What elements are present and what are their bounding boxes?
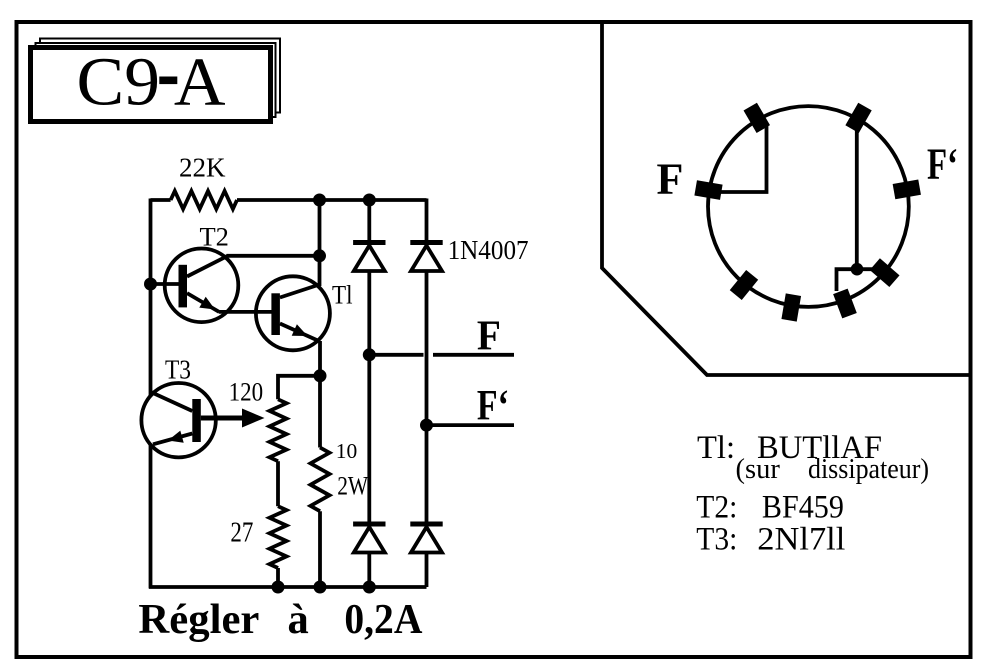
resistor 22K [171,191,237,209]
pad 4 (node F-prime) [893,179,921,199]
transistor T2 [165,248,239,322]
junction node F-prime / D2 column [420,419,433,432]
svg-text:T2: T2 [200,222,229,252]
wire diode column D2-D4 [425,271,429,587]
junction top rail / T1 collector column [313,194,326,207]
wiper arrow from T3 base to 120R [201,409,265,428]
diode D1 (1N4007) [353,240,385,245]
svg-text:2Nl7ll: 2Nl7ll [757,521,845,557]
resistor 27 [270,506,287,568]
junction top rail / D1 column [363,194,376,207]
wire top rail [151,198,427,202]
svg-text:1N4007: 1N4007 [448,234,529,265]
wire T2 emitter to T1 base [219,310,272,314]
wire diode column D1-D3 [367,200,371,587]
svg-text:27: 27 [230,517,253,548]
pad 3 (node F) [694,180,722,200]
inset boundary line [602,24,969,375]
junction bottom rail / D3 column [363,581,376,594]
pad 7 (bottom-right-low) [833,289,857,319]
wire 27R bottom lead [276,568,280,587]
wire left rail upper [149,199,153,397]
svg-text:dissipateur): dissipateur) [808,454,929,485]
wire middle column lower (T1 emitter to 10R) [318,341,322,448]
wire right diode column top lead [425,199,429,241]
diode D2 (1N4007) [410,240,442,245]
wire node F-prime line [427,423,515,427]
diode D4 (1N4007) [410,522,442,527]
svg-text:F: F [657,155,684,204]
svg-text:T2:: T2: [696,490,737,526]
wire node F line [369,353,514,357]
title box C9-A [31,48,271,122]
svg-text:(sur: (sur [736,454,781,485]
pad 8 (bottom-right) [870,258,900,287]
wire T2 collector to middle column [227,254,320,258]
svg-text:2W: 2W [337,470,368,500]
svg-text:F‘: F‘ [927,140,958,189]
svg-text:T3:: T3: [696,521,737,557]
svg-text:F: F [477,313,501,360]
svg-text:Tl:: Tl: [697,430,735,466]
wire bottom rail [149,585,427,589]
wire 120R to 27R [276,461,280,506]
junction bottom rail / 10R [314,581,327,594]
transistor T3 [141,383,215,457]
junction 120R top / 10R top [314,369,327,382]
svg-text:22K: 22K [179,153,226,183]
svg-text:F‘: F‘ [477,382,509,429]
wire pad 2 down [855,126,859,267]
pad 1 (top-left) [744,103,770,133]
transistor T1 [256,276,330,350]
title label C9-A dash [159,77,177,85]
resistor 120 (potentiometer track) [270,399,287,461]
wire junction branch to pads 7 and 8 [837,269,880,291]
resistor 10 2W [311,448,330,512]
svg-text:120: 120 [229,377,264,407]
junction T2 base / left rail [144,278,157,291]
svg-text:0,2A: 0,2A [344,596,422,643]
svg-text:Tl: Tl [332,280,353,310]
junction bottom rail / 27R [272,581,285,594]
connector circle (lamp socket) [708,106,909,307]
junction in connector view [851,263,864,276]
junction T2 collector / T1 collector [313,249,326,262]
svg-text:C9 A: C9 A [77,44,226,120]
wire left rail lower [149,444,153,589]
svg-text:à: à [288,596,309,643]
svg-text:Régler: Régler [138,596,259,643]
svg-text:BF459: BF459 [762,490,844,526]
wire middle column upper (T1 collector feed) [318,200,322,286]
svg-text:T3: T3 [165,354,191,384]
wire pad F to pad 1 [712,126,767,192]
diode D3 (1N4007) [353,522,385,527]
pad 5 (bottom-left) [730,270,758,300]
junction node F / D1 column [363,348,376,361]
wire 10R bottom lead [318,511,322,587]
pad 2 (top-right) [845,103,871,133]
pad 6 (bottom) [781,293,801,321]
wire T2 base [151,282,180,286]
title box C9-A shadow sheets [36,39,281,118]
svg-text:10: 10 [336,439,358,463]
wire 120R top lead [278,376,320,400]
